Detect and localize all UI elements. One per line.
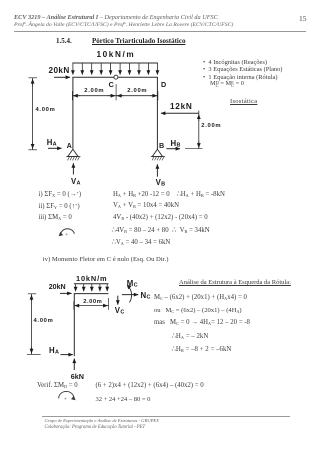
- header line 2: [14, 22, 233, 28]
- reaction arrow 6kN: [73, 359, 75, 370]
- reaction arrow HB: [166, 148, 180, 150]
- reaction arrow VB: [156, 164, 158, 176]
- extension tick top (2): [28, 293, 36, 295]
- svg-text:+: +: [64, 397, 67, 403]
- force label 20kN (2): [49, 283, 66, 291]
- force arrow 20kN (2): [60, 292, 72, 294]
- dim line right column: [198, 111, 200, 149]
- analysis result HB: [172, 345, 232, 353]
- column B: [156, 77, 158, 149]
- svg-text:+: +: [65, 232, 68, 238]
- force arrow 12kN: [161, 112, 199, 114]
- footer line 2: [45, 425, 146, 430]
- extension tick bottom (2): [27, 354, 41, 356]
- normal arrow NC: [122, 294, 138, 296]
- dim line 4.00m: [32, 78, 34, 150]
- analysis result HA: [172, 332, 209, 340]
- footer line 1: [45, 418, 159, 423]
- reaction label 6kN: [71, 372, 84, 381]
- reaction label HA: [47, 138, 57, 148]
- moment hinge condition: [210, 80, 244, 87]
- reaction arrow VA: [72, 163, 74, 174]
- dimension 2.00m right: [127, 88, 147, 94]
- force label 20kN: [49, 66, 70, 75]
- dim arrow right top: [198, 115, 200, 121]
- verification sum: [96, 396, 151, 403]
- eq i label: [39, 190, 82, 198]
- beam 2: [74, 293, 109, 295]
- dim tick left: [71, 91, 73, 100]
- reaction label VB: [156, 178, 166, 188]
- column 2: [73, 294, 75, 357]
- dim line 4.00m (2): [31, 294, 33, 355]
- distributed load arrows 2: [76, 284, 108, 292]
- analysis line 1: [154, 294, 247, 301]
- extension line at B level: [185, 148, 203, 150]
- moment sign convention arc verif: [59, 391, 74, 398]
- dim arrow 4m top: [32, 79, 34, 86]
- eq ii expression: [113, 202, 179, 209]
- dimension 2.00m column: [201, 123, 221, 129]
- page number 15: [299, 14, 307, 23]
- header rule: [14, 31, 306, 32]
- eq iii expression: [113, 214, 208, 221]
- section heading 1.5.4: [56, 37, 72, 45]
- beam C-D: [72, 76, 157, 78]
- distributed load line 2: [74, 283, 109, 285]
- reaction arrow HA (2): [61, 354, 73, 356]
- dimension 2.00m left: [84, 88, 104, 94]
- dim line 2.00m (2): [74, 305, 109, 307]
- eq iii result 2: [112, 238, 171, 246]
- verification expression: [96, 382, 204, 389]
- eq iv line: [43, 256, 169, 263]
- reaction arrow HA: [48, 147, 62, 149]
- moment label MC: [127, 279, 138, 289]
- dim arrows 2.00m (2): [75, 305, 108, 307]
- distributed load arrows: [73, 63, 157, 75]
- reaction label HA (2): [49, 346, 59, 356]
- dim arrow 4m bottom: [32, 142, 34, 148]
- footer rule: [42, 416, 290, 417]
- Isostatica label: [230, 98, 257, 105]
- node C label: [109, 80, 114, 89]
- dim arrows 4.00m (2): [31, 295, 33, 353]
- analysis line 3: [154, 319, 250, 326]
- dimension 4.00m (2): [34, 318, 54, 324]
- dimension 4.00m: [36, 107, 56, 113]
- node B label: [159, 141, 164, 150]
- verification line: [37, 382, 78, 389]
- node A label: [67, 141, 72, 150]
- eq ii label: [39, 202, 80, 210]
- bullet list right of diagram: [203, 59, 267, 66]
- load label 10kN/m (2): [76, 274, 107, 283]
- dimension 2.00m (2): [83, 299, 102, 305]
- distributed load line: [72, 62, 157, 64]
- dim tick C: [115, 84, 117, 100]
- load label 10kN/m: [97, 50, 136, 59]
- dim tick right: [157, 91, 159, 100]
- analysis line 2: [154, 307, 242, 314]
- support B ground: [151, 156, 165, 158]
- dim line below beam: [72, 95, 157, 97]
- support A triangle: [68, 149, 78, 156]
- dim ticks 2.00m (2): [73, 301, 75, 310]
- column A: [72, 77, 74, 149]
- eq i expression: [113, 190, 225, 198]
- node D label: [161, 80, 166, 89]
- eq iii label: [39, 214, 72, 221]
- force label 12kN: [170, 102, 193, 111]
- support B hatching: [152, 157, 164, 161]
- force arrow 20kN: [54, 76, 70, 78]
- support B triangle: [152, 149, 162, 156]
- shear label VC: [115, 306, 125, 316]
- header line 1: [14, 14, 218, 21]
- moment arc verif arrowhead: [71, 396, 76, 401]
- normal label NC: [141, 291, 151, 301]
- moment arc MC: [129, 287, 132, 302]
- extension tick bottom left: [28, 149, 37, 151]
- hinge at C: [114, 75, 118, 79]
- eq iii result: [112, 226, 210, 234]
- dim arrow right bottom: [198, 141, 200, 148]
- support A ground: [66, 156, 80, 158]
- moment arc i arrowhead: [59, 232, 64, 237]
- extension tick top left: [28, 77, 37, 79]
- moment arc MC arrowhead: [127, 285, 132, 289]
- analysis title: [179, 279, 291, 286]
- shear arrow VC: [117, 296, 119, 305]
- reaction label VA: [71, 177, 81, 187]
- reaction label HB: [171, 139, 181, 149]
- dim arrows beam left: [73, 95, 156, 97]
- moment sign convention arc i: [61, 229, 75, 234]
- support A hatching: [68, 157, 80, 161]
